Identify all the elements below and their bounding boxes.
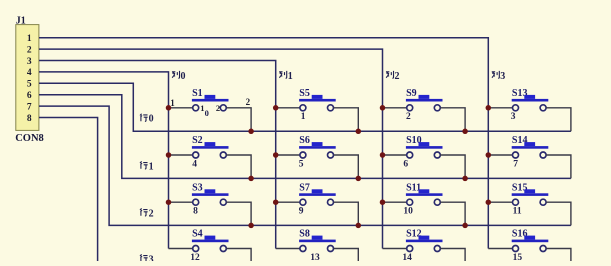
svg-text:3: 3 xyxy=(500,71,505,82)
svg-text:0: 0 xyxy=(181,71,186,82)
wire switch S7 pin 2 to row 2 xyxy=(334,202,359,225)
wire switch S5 pin 1 to column 1 xyxy=(276,107,300,109)
switch S1 button actuator xyxy=(205,95,216,99)
wire switch S11 pin 1 to column 2 xyxy=(383,201,407,203)
svg-text:1: 1 xyxy=(170,98,175,108)
switch S14 pin 1 contact xyxy=(513,152,519,158)
switch S10 pin 1 contact xyxy=(407,152,413,158)
switch S3 pin 2 contact xyxy=(220,199,226,205)
switch S3 button actuator xyxy=(205,189,216,193)
wire switch S15 pin 1 to column 3 xyxy=(488,201,512,203)
wire switch S4 pin 1 to column 0 xyxy=(169,248,193,250)
wire switch S11 pin 2 to row 2 xyxy=(440,202,465,225)
junction row 2 / S11 pin 2 drop xyxy=(462,223,468,229)
svg-text:10: 10 xyxy=(403,207,413,217)
switch S16 button actuator xyxy=(524,236,535,240)
junction column 3 / S14 pin 1 xyxy=(486,152,492,158)
svg-text:5: 5 xyxy=(27,80,32,90)
switch S3 button bar xyxy=(192,193,229,196)
junction row 0 / S1 pin 2 drop xyxy=(248,129,254,135)
switch S13 button actuator xyxy=(524,95,535,99)
junction column 2 / S10 pin 1 xyxy=(380,152,386,158)
node label row net 行0 xyxy=(140,114,148,122)
node label row net 行2 xyxy=(140,208,148,216)
wire switch S14 pin 1 to column 3 xyxy=(488,154,512,156)
svg-text:1: 1 xyxy=(27,34,32,44)
svg-text:8: 8 xyxy=(193,207,198,217)
switch S8 button bar xyxy=(299,240,336,243)
wire switch S1 pin 1 to column 0 xyxy=(169,107,193,109)
svg-text:2: 2 xyxy=(216,103,220,113)
switch S2 pin 2 contact xyxy=(220,152,226,158)
connector J1 body (CON8) xyxy=(16,25,39,131)
switch S3 pin 1 contact xyxy=(193,199,199,205)
svg-text:6: 6 xyxy=(403,159,408,169)
switch S7 pin 2 contact xyxy=(328,199,334,205)
switch S15 button actuator xyxy=(524,189,535,193)
switch S10 button bar xyxy=(406,146,443,149)
svg-text:S1: S1 xyxy=(192,88,203,99)
switch S12 pin 1 contact xyxy=(407,246,413,252)
switch S4 button bar xyxy=(192,240,229,243)
junction row 0 / S5 pin 2 drop xyxy=(356,129,362,135)
svg-text:S3: S3 xyxy=(192,182,203,193)
svg-text:8: 8 xyxy=(27,114,32,124)
svg-text:3: 3 xyxy=(27,57,32,67)
wire switch S10 pin 2 to row 1 xyxy=(440,155,465,178)
switch S15 pin 2 contact xyxy=(540,199,546,205)
node label column net 列0 xyxy=(172,71,180,78)
switch S8 pin 2 contact xyxy=(328,246,334,252)
switch S1 button bar xyxy=(192,99,229,102)
wire J1 pin 7 to row 2 (net 行2) xyxy=(39,106,571,225)
switch S4 button actuator xyxy=(205,236,216,240)
switch S14 button actuator xyxy=(524,142,535,146)
svg-text:0: 0 xyxy=(205,108,209,118)
svg-text:S2: S2 xyxy=(192,135,203,146)
junction row 1 / S10 pin 2 drop xyxy=(462,176,468,182)
junction column 1 / S5 pin 1 xyxy=(273,105,279,111)
svg-text:13: 13 xyxy=(310,253,320,261)
svg-text:4: 4 xyxy=(192,159,197,169)
svg-text:S9: S9 xyxy=(406,88,417,99)
switch S10 pin 2 contact xyxy=(434,152,440,158)
wire switch S8 pin 1 to column 1 xyxy=(276,248,300,250)
svg-text:S5: S5 xyxy=(299,88,310,99)
wire switch S10 pin 1 to column 2 xyxy=(383,154,407,156)
wire J1 pin 1 to column 3 (net 列3) xyxy=(39,38,488,249)
junction column 2 / S9 pin 1 xyxy=(380,105,386,111)
junction column 3 / S13 pin 1 xyxy=(486,105,492,111)
switch S9 pin 2 contact xyxy=(434,105,440,111)
wire switch S16 pin 2 to row 3 (off bottom) xyxy=(546,249,571,262)
switch S13 pin 2 contact xyxy=(540,105,546,111)
svg-text:15: 15 xyxy=(513,253,523,261)
switch S4 pin 1 contact xyxy=(193,246,199,252)
node label column net 列3 xyxy=(492,71,500,78)
junction column 0 / S3 pin 1 xyxy=(166,199,172,205)
switch S11 pin 1 contact xyxy=(407,199,413,205)
wire switch S6 pin 2 to row 1 xyxy=(334,155,359,178)
svg-text:2: 2 xyxy=(149,208,154,219)
svg-text:5: 5 xyxy=(299,159,304,169)
wire switch S6 pin 1 to column 1 xyxy=(276,154,300,156)
svg-text:3: 3 xyxy=(511,112,516,122)
switch S5 pin 1 contact xyxy=(300,105,306,111)
svg-text:2: 2 xyxy=(27,45,32,55)
junction column 1 / S7 pin 1 xyxy=(273,199,279,205)
switch S5 pin 2 contact xyxy=(328,105,334,111)
switch S2 pin 1 contact xyxy=(193,152,199,158)
switch S8 button actuator xyxy=(312,236,323,240)
switch S11 button actuator xyxy=(419,189,430,193)
wire J1 pin 3 to column 1 (net 列1) xyxy=(39,61,276,249)
svg-text:S6: S6 xyxy=(299,135,310,146)
switch S14 button bar xyxy=(512,146,549,149)
switch S7 pin 1 contact xyxy=(300,199,306,205)
junction column 0 / S1 pin 1 xyxy=(166,105,172,111)
switch S6 pin 2 contact xyxy=(328,152,334,158)
switch S15 pin 1 contact xyxy=(513,199,519,205)
svg-text:S7: S7 xyxy=(299,182,310,193)
switch S16 pin 2 contact xyxy=(540,246,546,252)
switch S13 button bar xyxy=(512,99,549,102)
wire J1 pin 8 to row 3 (net 行3, runs off bottom) xyxy=(39,118,98,262)
wire J1 pin 6 to row 1 (net 行1) xyxy=(39,95,571,179)
junction row 2 / S3 pin 2 drop xyxy=(248,223,254,229)
wire switch S14 pin 2 to row 1 xyxy=(546,155,571,178)
wire switch S7 pin 1 to column 1 xyxy=(276,201,300,203)
wire switch S3 pin 1 to column 0 xyxy=(169,201,193,203)
wire switch S9 pin 1 to column 2 xyxy=(383,107,407,109)
junction column 1 / S6 pin 1 xyxy=(273,152,279,158)
node label column net 列2 xyxy=(386,71,394,78)
wire switch S13 pin 2 to row 0 xyxy=(546,108,571,132)
wire switch S13 pin 1 to column 3 xyxy=(488,107,512,109)
svg-text:3: 3 xyxy=(149,254,154,261)
svg-text:2: 2 xyxy=(246,97,251,107)
switch S10 button actuator xyxy=(419,142,430,146)
switch S1 pin 1 contact xyxy=(193,105,199,111)
switch S2 button actuator xyxy=(205,142,216,146)
wire J1 pin 5 to row 0 (net 行0) xyxy=(39,83,571,131)
junction column 3 / S15 pin 1 xyxy=(486,199,492,205)
switch S13 pin 1 contact xyxy=(513,105,519,111)
wire switch S4 pin 2 to row 3 (off bottom) xyxy=(226,249,251,262)
svg-text:4: 4 xyxy=(27,68,32,78)
junction row 0 / S9 pin 2 drop xyxy=(462,129,468,135)
svg-text:0: 0 xyxy=(149,114,154,125)
wire switch S2 pin 1 to column 0 xyxy=(169,154,193,156)
svg-text:S8: S8 xyxy=(299,229,310,240)
svg-text:12: 12 xyxy=(190,253,200,261)
wire switch S16 pin 1 to column 3 xyxy=(488,248,512,250)
svg-text:2: 2 xyxy=(395,71,400,82)
wire switch S9 pin 2 to row 0 xyxy=(440,108,465,132)
node label column net 列1 xyxy=(279,71,287,78)
svg-text:2: 2 xyxy=(406,112,411,122)
svg-text:CON8: CON8 xyxy=(15,133,44,144)
switch S6 button bar xyxy=(299,146,336,149)
junction row 1 / S2 pin 2 drop xyxy=(248,176,254,182)
wire switch S3 pin 2 to row 2 xyxy=(226,202,251,225)
svg-text:S4: S4 xyxy=(192,229,203,240)
switch S11 button bar xyxy=(406,193,443,196)
switch S7 button bar xyxy=(299,193,336,196)
wire J1 pin 2 to column 2 (net 列2) xyxy=(39,49,383,248)
junction row 2 / S7 pin 2 drop xyxy=(356,223,362,229)
svg-text:9: 9 xyxy=(299,207,304,217)
switch S11 pin 2 contact xyxy=(434,199,440,205)
junction row 1 / S6 pin 2 drop xyxy=(356,176,362,182)
junction column 0 / S2 pin 1 xyxy=(166,152,172,158)
switch S6 pin 1 contact xyxy=(300,152,306,158)
switch S4 pin 2 contact xyxy=(220,246,226,252)
svg-text:1: 1 xyxy=(288,71,293,82)
wire switch S2 pin 2 to row 1 xyxy=(226,155,251,178)
wire switch S12 pin 1 to column 2 xyxy=(383,248,407,250)
wire switch S15 pin 2 to row 2 xyxy=(546,202,571,225)
switch S8 pin 1 contact xyxy=(300,246,306,252)
switch S6 button actuator xyxy=(312,142,323,146)
switch S14 pin 2 contact xyxy=(540,152,546,158)
svg-text:7: 7 xyxy=(513,159,518,169)
wire switch S8 pin 2 to row 3 (off bottom) xyxy=(334,249,359,262)
svg-text:14: 14 xyxy=(402,253,412,261)
junction column 2 / S11 pin 1 xyxy=(380,199,386,205)
switch S5 button actuator xyxy=(312,95,323,99)
wire switch S5 pin 2 to row 0 xyxy=(334,108,359,132)
node label row net 行1 xyxy=(140,161,148,169)
wire J1 pin 4 to column 0 (net 列0) xyxy=(39,72,169,249)
svg-text:1: 1 xyxy=(301,112,306,122)
switch S9 pin 1 contact xyxy=(407,105,413,111)
wire switch S12 pin 2 to row 3 (off bottom) xyxy=(440,249,465,262)
svg-text:7: 7 xyxy=(27,102,32,112)
switch S12 pin 2 contact xyxy=(434,246,440,252)
switch S2 button bar xyxy=(192,146,229,149)
switch S9 button actuator xyxy=(419,95,430,99)
switch S16 button bar xyxy=(512,240,549,243)
wire switch S1 pin 2 to row 0 xyxy=(226,108,251,132)
switch S15 button bar xyxy=(512,193,549,196)
switch S12 button bar xyxy=(406,240,443,243)
svg-text:11: 11 xyxy=(513,207,522,217)
switch S1 pin 2 contact xyxy=(220,105,226,111)
switch S5 button bar xyxy=(299,99,336,102)
svg-text:1: 1 xyxy=(149,161,154,172)
svg-text:6: 6 xyxy=(27,91,32,101)
switch S12 button actuator xyxy=(419,236,430,240)
node label row net 行3 xyxy=(140,254,148,262)
switch S16 pin 1 contact xyxy=(513,246,519,252)
switch S9 button bar xyxy=(406,99,443,102)
switch S7 button actuator xyxy=(312,189,323,193)
